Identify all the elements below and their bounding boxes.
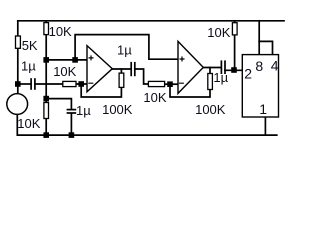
node input junction <box>15 81 21 87</box>
svg-text:1µ: 1µ <box>76 103 91 118</box>
wire bias feed to op-amp U2 + input <box>75 35 178 60</box>
wire C4 bottom lead <box>70 113 72 135</box>
resistor 100K R4 (U1 feedback) <box>119 73 124 87</box>
capacitor C3 1µ (output coupling) <box>220 60 222 74</box>
resistor 10K R6 (bottom of divider) <box>44 103 49 119</box>
wire left rail <box>17 21 19 94</box>
wire IC pin 4 branch <box>259 41 272 54</box>
svg-text:1µ: 1µ <box>21 58 36 73</box>
wire U2 output to C3 <box>203 67 220 69</box>
wire top supply rail <box>18 20 284 22</box>
node U1 inverting input junction <box>78 81 84 87</box>
node divider ground junction <box>43 132 49 138</box>
svg-text:1µ: 1µ <box>213 70 228 85</box>
wire mic bottom lead <box>16 114 18 135</box>
svg-text:100K: 100K <box>102 102 133 117</box>
node bias divider junction <box>43 57 49 63</box>
capacitor C2 1µ (interstage coupling) <box>130 62 132 76</box>
wire feedback loop U2 <box>170 84 210 97</box>
wire bias node to op-amp U1 + input <box>46 59 87 61</box>
node IC input junction <box>231 67 237 73</box>
wire C1 to op-amp U1 - input <box>36 83 87 85</box>
svg-text:8: 8 <box>255 58 263 74</box>
wire R8 pull-up lead <box>234 21 236 71</box>
op-amp U1 <box>87 46 112 92</box>
wire IC pin 8 to supply rail <box>258 21 260 55</box>
op-amp U2 <box>178 41 203 93</box>
resistor 100K R7 (U2 feedback) <box>208 74 213 90</box>
wire R5 to op-amp U2 - input <box>165 83 178 85</box>
wire C2 to R5 step-down <box>136 69 149 84</box>
resistor 10K R3 (series input) <box>63 81 76 86</box>
wire U1 output to C2 <box>112 68 130 70</box>
wire bypass branch to C4 <box>46 99 71 110</box>
wire R7 top lead to U2 output <box>209 68 211 74</box>
wire feedback loop U1 <box>81 84 121 97</box>
node C4 ground junction <box>69 132 75 138</box>
svg-text:10K: 10K <box>207 25 230 40</box>
node U2 inverting input junction <box>167 81 173 87</box>
capacitor C4 1µ (bias bypass) <box>67 109 77 111</box>
svg-text:2: 2 <box>244 66 252 82</box>
node bias tap junction <box>72 57 78 63</box>
svg-text:10K: 10K <box>143 90 166 105</box>
resistor 10K R5 (series to U2) <box>148 81 164 86</box>
svg-text:1µ: 1µ <box>117 43 132 58</box>
wire bias divider vertical <box>45 21 47 135</box>
node bypass tap junction <box>43 96 49 102</box>
resistor 5K R1 <box>16 36 21 48</box>
resistor 10K R2 (top of divider) <box>44 23 49 35</box>
wire R4 top lead to U1 output <box>120 69 122 73</box>
svg-text:4: 4 <box>271 58 279 74</box>
microphone M1 <box>7 94 28 115</box>
capacitor C1 1µ (input coupling) <box>30 78 32 90</box>
svg-text:10K: 10K <box>53 64 76 79</box>
svg-text:10K: 10K <box>17 116 40 131</box>
resistor 10K R8 (pull-up) <box>232 23 237 35</box>
wire input node to C1 <box>18 83 31 85</box>
svg-text:10K: 10K <box>49 24 72 39</box>
IC U3 (pins 2 8 4 1) <box>242 55 278 117</box>
wire bottom ground rail <box>18 134 277 136</box>
wire C3 to IC pin 2 <box>225 69 242 71</box>
svg-text:5K: 5K <box>22 38 38 53</box>
wire IC pin 1 to ground rail <box>264 117 266 135</box>
svg-text:100K: 100K <box>195 102 226 117</box>
svg-text:1: 1 <box>259 101 267 117</box>
